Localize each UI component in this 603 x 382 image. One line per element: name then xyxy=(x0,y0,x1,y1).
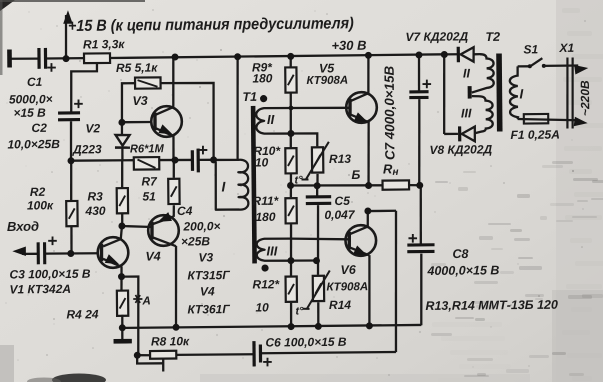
svg-text:V1 КТ342А: V1 КТ342А xyxy=(9,282,71,297)
svg-text:10: 10 xyxy=(255,155,269,169)
svg-text:R7: R7 xyxy=(141,174,158,188)
svg-text:V3: V3 xyxy=(198,250,213,264)
svg-text:Т1: Т1 xyxy=(242,90,257,104)
svg-text:F1 0,25А: F1 0,25А xyxy=(510,128,559,142)
svg-text:V5: V5 xyxy=(319,61,335,75)
svg-text:430: 430 xyxy=(84,204,105,218)
svg-text:R4 24: R4 24 xyxy=(66,307,98,321)
svg-text:R1 3,3к: R1 3,3к xyxy=(83,37,125,51)
svg-text:II: II xyxy=(463,66,471,80)
svg-text:R3: R3 xyxy=(87,189,103,203)
svg-text:V6: V6 xyxy=(340,263,356,277)
svg-text:t°: t° xyxy=(295,305,304,317)
svg-text:КТ908А: КТ908А xyxy=(306,75,348,87)
svg-text:R13,R14 ММТ-13Б 120: R13,R14 ММТ-13Б 120 xyxy=(425,298,558,313)
svg-text:I: I xyxy=(519,86,523,101)
svg-text:5000,0×: 5000,0× xyxy=(9,92,53,106)
svg-text:V2: V2 xyxy=(85,121,100,135)
svg-text:V8 КД202Д: V8 КД202Д xyxy=(429,142,492,157)
svg-text:R5 5,1к: R5 5,1к xyxy=(116,61,158,75)
svg-text:R6*1М: R6*1М xyxy=(130,143,164,156)
svg-text:Т2: Т2 xyxy=(485,30,500,44)
svg-text:Д223: Д223 xyxy=(72,142,102,156)
svg-text:R13: R13 xyxy=(329,152,351,166)
svg-text:V7 КД202Д: V7 КД202Д xyxy=(405,29,468,44)
svg-text:R12*: R12* xyxy=(252,277,280,291)
svg-text:×25В: ×25В xyxy=(181,234,210,248)
svg-text:С2: С2 xyxy=(31,121,47,135)
svg-text:V3: V3 xyxy=(132,94,147,108)
svg-text:10,0×25В: 10,0×25В xyxy=(7,137,60,152)
svg-text:R11*: R11* xyxy=(252,194,279,208)
svg-text:С8: С8 xyxy=(452,247,468,261)
svg-text:II: II xyxy=(267,112,275,127)
svg-text:С3 100,0×15 В: С3 100,0×15 В xyxy=(9,267,91,282)
svg-text:Б: Б xyxy=(351,168,360,182)
svg-text:КТ908А: КТ908А xyxy=(326,281,368,293)
svg-text:КТ361Г: КТ361Г xyxy=(187,302,230,316)
svg-text:4000,0×15 В: 4000,0×15 В xyxy=(426,263,499,278)
svg-text:КТ315Г: КТ315Г xyxy=(187,268,230,282)
svg-text:С4: С4 xyxy=(177,204,193,218)
svg-text:V4: V4 xyxy=(200,284,215,298)
svg-text:R8 10к: R8 10к xyxy=(151,334,190,348)
svg-text:С5: С5 xyxy=(334,194,350,208)
svg-text:A: A xyxy=(141,295,150,307)
svg-text:+30 В: +30 В xyxy=(331,38,366,53)
svg-text:S1: S1 xyxy=(523,42,538,56)
svg-text:~220В: ~220В xyxy=(578,80,592,116)
svg-text:10: 10 xyxy=(255,300,269,314)
svg-text:t°: t° xyxy=(294,174,303,186)
svg-text:100к: 100к xyxy=(27,198,54,212)
svg-text:R2: R2 xyxy=(30,185,46,199)
svg-text:200,0×: 200,0× xyxy=(182,219,220,233)
svg-text:51: 51 xyxy=(142,189,156,203)
svg-text:III: III xyxy=(461,106,472,120)
svg-text:Х1: Х1 xyxy=(558,41,574,55)
svg-text:+15 В (к цепи питания предусил: +15 В (к цепи питания предусилителя) xyxy=(68,15,354,36)
svg-text:V4: V4 xyxy=(145,249,160,263)
svg-text:180: 180 xyxy=(255,210,275,224)
svg-text:0,047: 0,047 xyxy=(324,208,355,222)
svg-text:×15 В: ×15 В xyxy=(13,106,46,120)
svg-text:С6 100,0×15 В: С6 100,0×15 В xyxy=(265,335,347,350)
svg-text:R14: R14 xyxy=(329,298,351,312)
svg-text:III: III xyxy=(266,243,277,258)
svg-text:С7 4000,0×15В: С7 4000,0×15В xyxy=(382,65,398,160)
svg-text:Вход: Вход xyxy=(7,219,39,234)
svg-text:180: 180 xyxy=(252,71,272,85)
svg-text:С1: С1 xyxy=(27,75,43,89)
